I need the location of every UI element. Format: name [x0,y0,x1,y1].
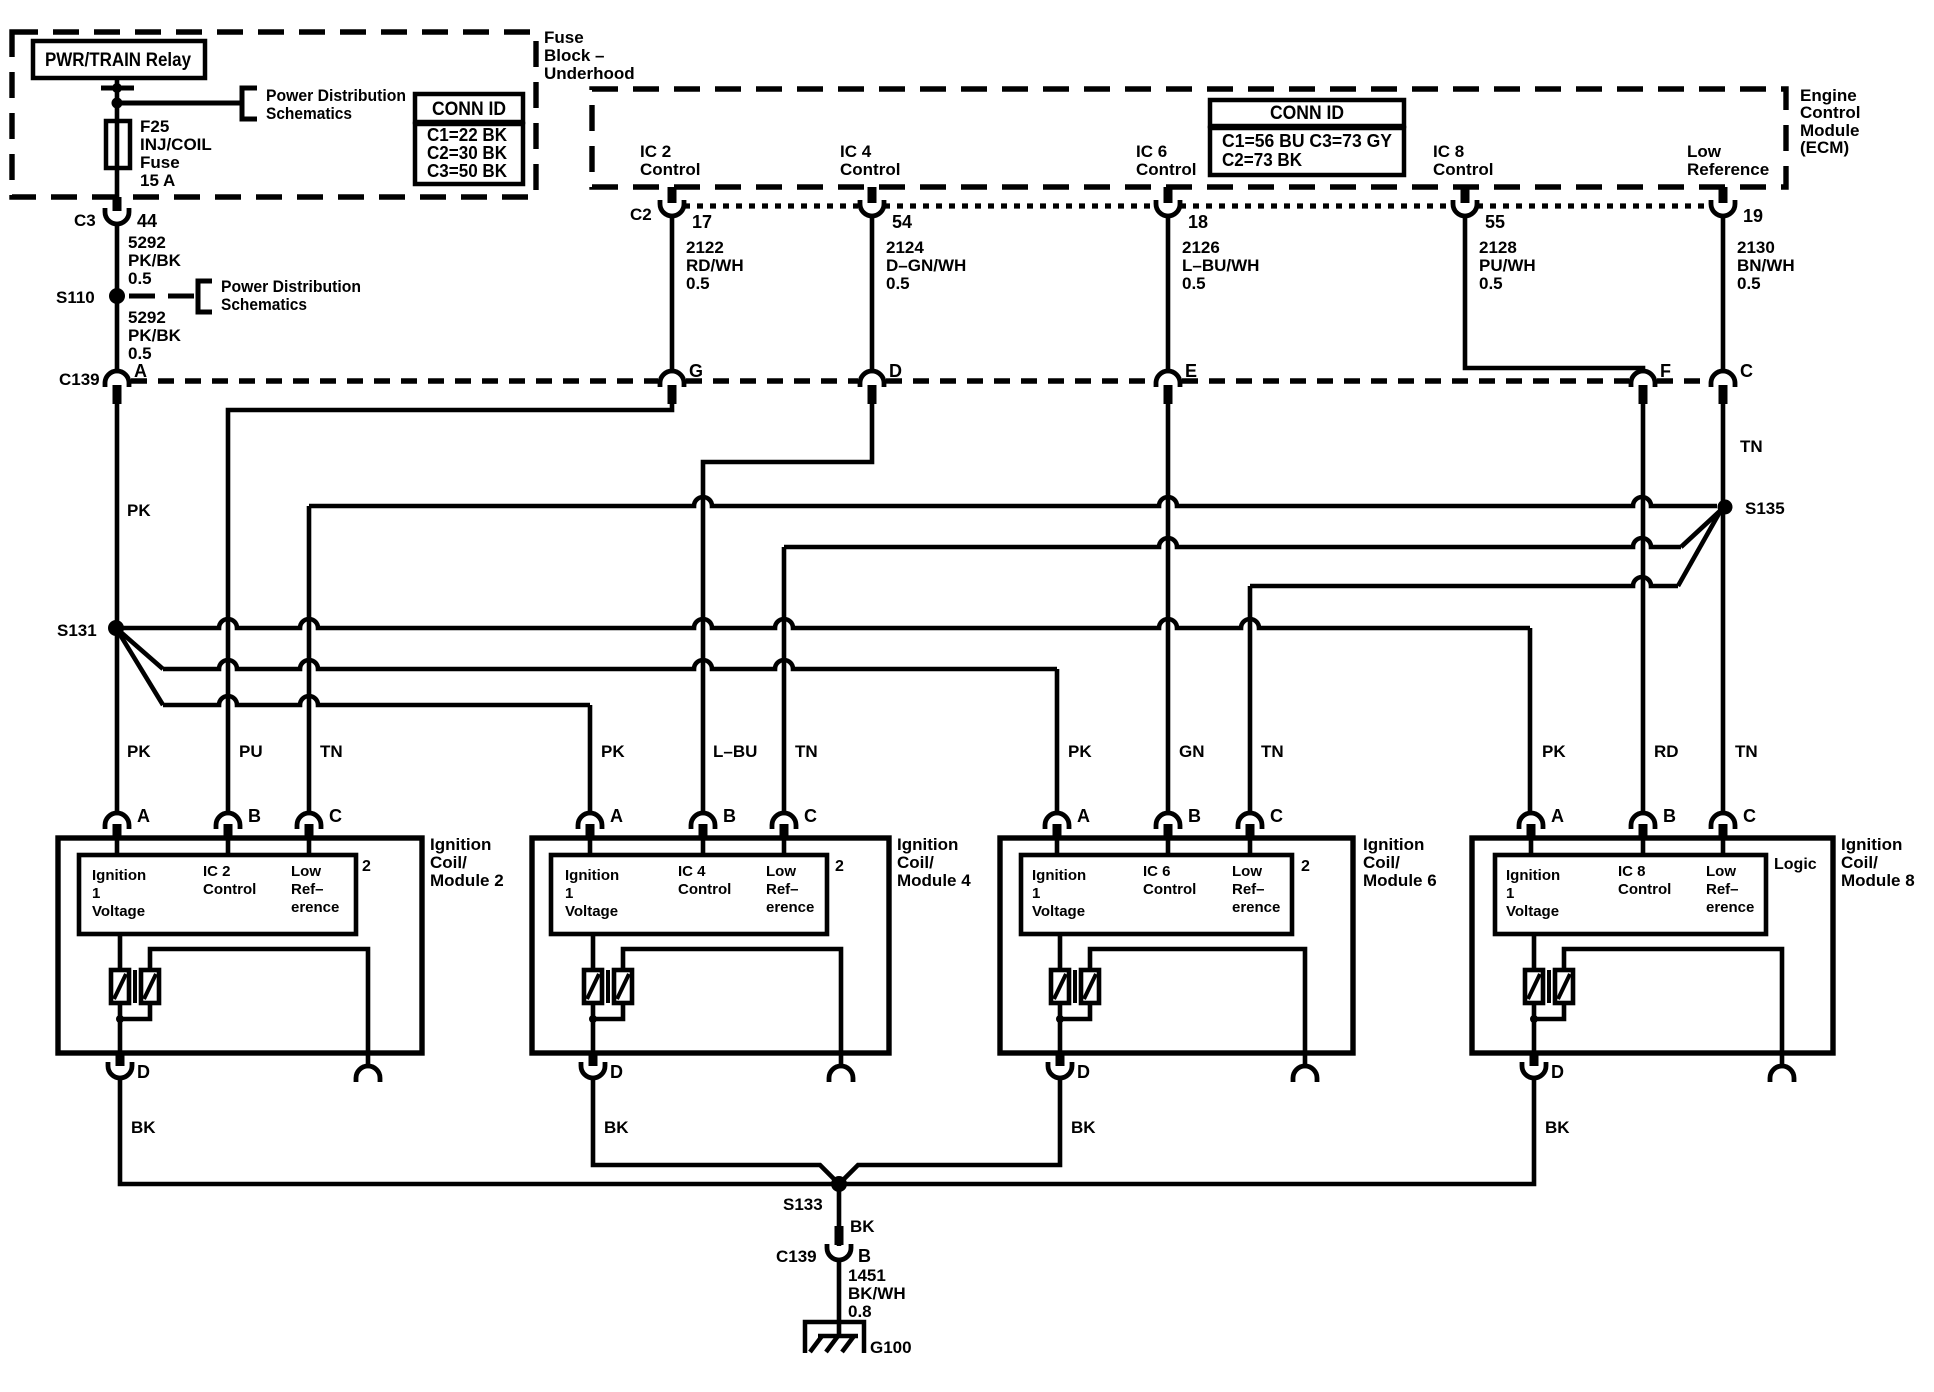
svg-text:Control: Control [678,881,731,898]
svg-text:TN: TN [795,742,818,761]
svg-text:D: D [889,361,902,381]
wire L-BU (D to module 4 pin B) [703,404,872,813]
svg-text:Ref–: Ref– [1232,881,1265,898]
svg-text:Power Distribution: Power Distribution [221,277,361,296]
module 6 pin B [1156,806,1201,838]
module 6 label IC 6 Control [1143,863,1196,898]
svg-text:2122: 2122 [686,238,724,257]
svg-text:Ref–: Ref– [291,881,324,898]
svg-text:Ref–: Ref– [766,881,799,898]
svg-text:5292: 5292 [128,308,166,327]
svg-text:Ignition: Ignition [1506,867,1560,884]
svg-text:INJ/COIL: INJ/COIL [140,135,212,154]
wire 5292 PK/BK lower [115,296,120,371]
splice S135 [1718,499,1785,518]
svg-text:C3=50 BK: C3=50 BK [427,161,507,181]
module 2 pin stubs into terminal box [117,836,309,855]
module 2 label 2 [362,858,371,875]
svg-text:S110: S110 [56,288,95,307]
svg-text:Low: Low [1232,863,1262,880]
svg-text:erence: erence [1706,899,1754,916]
svg-text:IC 2: IC 2 [203,863,231,880]
wire PK (C139-A to S131) [115,404,120,628]
module 6 coil core [1073,970,1077,1003]
svg-text:TN: TN [320,742,343,761]
module 2 terminal box [79,855,356,934]
ignition coil module 8 outer box [1472,838,1833,1053]
module 8 label Ignition 1 Voltage [1506,867,1560,920]
svg-text:Low: Low [1687,142,1722,161]
label BK (module 6) [1071,1118,1096,1137]
svg-text:S133: S133 [783,1195,823,1214]
svg-text:C: C [1743,806,1756,826]
svg-text:A: A [137,806,150,826]
svg-text:IC 8: IC 8 [1433,142,1464,161]
module 2 label Ignition 1 Voltage [92,867,146,920]
module 4 wire to pin D [591,1003,596,1051]
svg-text:TN: TN [1735,742,1758,761]
module 2 wire to pin D [118,1003,123,1051]
module 4 coil core [606,970,610,1003]
svg-text:G100: G100 [870,1338,912,1357]
label C2 [630,205,652,224]
svg-text:Ignition: Ignition [565,867,619,884]
svg-text:Coil/: Coil/ [1841,853,1878,872]
svg-text:D: D [610,1062,623,1082]
module 2 pin A [105,806,150,838]
module 8 label Low Ref-erence [1706,863,1754,916]
svg-text:C1=56 BU C3=73 GY: C1=56 BU C3=73 GY [1222,131,1392,151]
wire TN (C to S135) [1721,404,1726,506]
label 2122 RD/WH 0.5 [686,238,744,293]
module 8 label IC 8 Control [1618,863,1671,898]
wire branch to power distribution [117,101,240,106]
module 4 label 2 [835,858,844,875]
svg-text:B: B [723,806,736,826]
svg-text:Logic: Logic [1774,856,1817,873]
svg-text:2130: 2130 [1737,238,1775,257]
label 5292 PK/BK 0.5 (upper) [128,233,182,288]
svg-text:C2=30 BK: C2=30 BK [427,143,507,163]
module 4 label Ignition 1 Voltage [565,867,619,920]
module 4 pin B [691,806,736,838]
module 8 pin stubs into terminal box [1531,836,1723,855]
label 2130 BN/WH 0.5 [1737,238,1795,293]
label IC 6 Control [1136,142,1196,179]
svg-text:S135: S135 [1745,499,1785,518]
svg-text:Ignition: Ignition [897,835,958,854]
svg-text:Low: Low [291,863,321,880]
module 8 pin D [1522,1051,1564,1082]
label PK RD TN (module 8 wires) [1542,742,1758,761]
wire 2126 L-BU/WH (pin18 to E) [1166,216,1171,369]
svg-text:CONN ID: CONN ID [1270,103,1344,124]
module 6 label Ignition 1 Voltage [1032,867,1086,920]
wire TN bus (module2 C to S135) [309,497,1717,813]
label BK (module 4) [604,1118,629,1137]
svg-text:Control: Control [203,881,256,898]
connector C139 pin F [1631,361,1671,404]
svg-text:Module 4: Module 4 [897,871,971,890]
module 6 coil junction node [1056,1003,1090,1023]
connector C139 pin A [105,361,147,404]
svg-text:1: 1 [92,885,100,902]
module 2 label Low Ref-erence [291,863,339,916]
ignition coil module 4 outer box [532,838,889,1053]
wire 5292 PK/BK upper [115,224,120,296]
label Fuse Block - Underhood [544,28,635,83]
label PK (upper left) [127,501,151,520]
svg-text:BK: BK [1545,1118,1570,1137]
svg-text:CONN ID: CONN ID [432,99,506,120]
svg-text:PK: PK [127,742,151,761]
module 4 label IC 4 Control [678,863,731,898]
svg-text:D: D [137,1062,150,1082]
svg-text:C: C [1740,361,1753,381]
svg-text:Ignition: Ignition [92,867,146,884]
module 8 terminal box [1495,855,1766,934]
svg-text:BK: BK [850,1217,875,1236]
svg-text:Schematics: Schematics [221,295,307,314]
label PK GN TN (module 6 wires) [1068,742,1284,761]
fuse block - underhood dashed box [12,32,536,197]
svg-text:Voltage: Voltage [92,903,145,920]
svg-text:0.5: 0.5 [686,274,710,293]
svg-text:0.5: 0.5 [128,269,152,288]
svg-text:Control: Control [1143,881,1196,898]
ignition coil module 2 outer box [58,838,422,1053]
module 2 pin B [216,806,261,838]
svg-text:(ECM): (ECM) [1800,138,1849,157]
label Low Reference [1687,142,1769,179]
svg-text:BK/WH: BK/WH [848,1284,906,1303]
label IC 4 Control [840,142,900,179]
svg-text:PK: PK [1068,742,1092,761]
engine control module dashed box [592,89,1786,187]
module 4 pin C [772,806,817,838]
svg-text:2126: 2126 [1182,238,1220,257]
svg-text:1: 1 [565,885,573,902]
svg-text:15 A: 15 A [140,171,175,190]
module 6 pin A [1045,806,1090,838]
wire BK (module6 D to S133) [841,1078,1060,1182]
module 2 coil junction node [116,1003,150,1023]
svg-text:Module 6: Module 6 [1363,871,1437,890]
svg-text:E: E [1185,361,1197,381]
svg-text:2: 2 [1301,858,1310,875]
connector C139 pin B [776,1226,871,1266]
svg-text:Voltage: Voltage [1032,903,1085,920]
svg-text:0.5: 0.5 [1737,274,1761,293]
svg-text:C: C [804,806,817,826]
svg-text:Control: Control [1433,160,1493,179]
module 6 coil secondary winding [1081,970,1099,1003]
svg-text:Fuse: Fuse [544,28,584,47]
svg-text:D: D [1077,1062,1090,1082]
module 4 pin D [581,1051,623,1082]
connector C139 pin G [660,361,703,404]
connector C139 pin C [1711,361,1753,404]
svg-text:1451: 1451 [848,1266,886,1285]
svg-text:19: 19 [1743,206,1763,226]
ground G100 symbol [805,1322,864,1353]
svg-text:C2: C2 [630,205,652,224]
svg-text:erence: erence [766,899,814,916]
label PK PU TN (module 2 wires) [127,742,343,761]
svg-text:C: C [1270,806,1283,826]
svg-text:Control: Control [1136,160,1196,179]
module 6 secondary loop wire [1090,949,1305,1066]
module 4 pin A [578,806,623,838]
wire 1451 BK/WH [837,1260,842,1336]
svg-text:PU: PU [239,742,263,761]
svg-text:1: 1 [1506,885,1514,902]
svg-text:D–GN/WH: D–GN/WH [886,256,966,275]
svg-text:5292: 5292 [128,233,166,252]
wire PK (S131 to module2 A) [115,628,120,813]
module 4 coil secondary winding [614,970,632,1003]
splice S110 [56,288,125,307]
ECM pin 18 [1156,187,1208,232]
svg-text:IC 8: IC 8 [1618,863,1646,880]
svg-text:BK: BK [1071,1118,1096,1137]
svg-text:C139: C139 [59,370,100,389]
node relay branch [112,98,123,109]
wire PK bus L4 (S131 to module6 A) [116,628,1057,813]
svg-text:2128: 2128 [1479,238,1517,257]
svg-text:2: 2 [835,858,844,875]
svg-text:Coil/: Coil/ [1363,853,1400,872]
svg-text:Ignition: Ignition [1363,835,1424,854]
svg-text:0.5: 0.5 [886,274,910,293]
svg-text:A: A [1077,806,1090,826]
splice S131 [57,620,124,640]
svg-text:Coil/: Coil/ [430,853,467,872]
svg-text:Control: Control [1800,103,1860,122]
label C139 [59,370,100,389]
module 6 label Low Ref-erence [1232,863,1280,916]
svg-text:54: 54 [892,212,912,232]
svg-text:GN: GN [1179,742,1205,761]
label 5292 PK/BK 0.5 (lower) [128,308,182,363]
svg-text:Low: Low [766,863,796,880]
label TN (right upper) [1740,437,1763,456]
label BK (ground wire) [850,1217,875,1236]
svg-text:Ref–: Ref– [1706,881,1739,898]
svg-text:F: F [1660,361,1671,381]
svg-text:B: B [1188,806,1201,826]
svg-text:IC 4: IC 4 [840,142,872,161]
wire GN (E to module 6 pin B) [1166,404,1171,813]
svg-text:PK: PK [127,501,151,520]
ECM pin 55 [1453,187,1505,232]
ECM pin 17 [660,187,712,232]
svg-text:L–BU/WH: L–BU/WH [1182,256,1259,275]
svg-text:B: B [858,1246,871,1266]
svg-text:F25: F25 [140,117,169,136]
svg-text:A: A [610,806,623,826]
svg-text:Module 2: Module 2 [430,871,504,890]
module 4 coil junction node [589,1003,623,1023]
wire TN bus (module6 C to S135) [1250,510,1721,813]
svg-text:IC 6: IC 6 [1136,142,1167,161]
label BK (module 2) [131,1118,156,1137]
wire RD (F to module 8 pin B) [1641,404,1646,813]
module 4 secondary output socket [829,1066,853,1082]
svg-text:0.5: 0.5 [1479,274,1503,293]
module 6 coil primary winding [1051,934,1069,1003]
module 2 secondary output socket [356,1066,380,1082]
module 2 secondary loop wire [150,949,368,1066]
svg-text:Fuse: Fuse [140,153,180,172]
svg-text:C139: C139 [776,1247,817,1266]
svg-text:2: 2 [362,858,371,875]
svg-text:IC 2: IC 2 [640,142,671,161]
wire BK (module4 D to S133) [593,1078,837,1182]
module 2 pin D [108,1051,150,1082]
svg-text:S131: S131 [57,621,97,640]
module 2 coil primary winding [111,934,129,1003]
svg-text:erence: erence [1232,899,1280,916]
wire TN bus (module4 C to S135) [784,510,1721,813]
module 8 secondary output socket [1770,1066,1794,1082]
module 8 coil primary winding [1525,934,1543,1003]
label IC 2 Control [640,142,700,179]
wire PU (G to module 2 pin B) [228,404,672,813]
module 6 terminal box [1021,855,1292,934]
svg-text:1: 1 [1032,885,1040,902]
svg-text:Voltage: Voltage [565,903,618,920]
relay pin T-bar [101,83,134,93]
svg-text:Underhood: Underhood [544,64,635,83]
svg-text:55: 55 [1485,212,1505,232]
module 6 pin D [1048,1051,1090,1082]
module 4 secondary loop wire [623,949,841,1066]
module 8 pin C [1711,806,1756,838]
label Engine Control Module (ECM) [1800,86,1860,157]
svg-text:erence: erence [291,899,339,916]
svg-text:IC 4: IC 4 [678,863,706,880]
ECM pin 54 [860,187,912,232]
connector C2 dotted line [684,203,1711,208]
svg-text:Block –: Block – [544,46,604,65]
svg-text:B: B [248,806,261,826]
connector C139 pin E [1156,361,1197,404]
svg-text:Control: Control [840,160,900,179]
svg-text:PK: PK [1542,742,1566,761]
svg-text:TN: TN [1740,437,1763,456]
wire relay output [115,78,120,121]
svg-text:Coil/: Coil/ [897,853,934,872]
wire BK (module2 D to S133) [120,1078,836,1184]
label Ignition Coil/ Module 6 [1363,835,1437,890]
svg-text:PK/BK: PK/BK [128,251,182,270]
module 4 terminal box [551,855,827,934]
svg-text:A: A [134,361,147,381]
svg-text:BK: BK [131,1118,156,1137]
svg-text:2124: 2124 [886,238,924,257]
svg-text:A: A [1551,806,1564,826]
svg-text:Ignition: Ignition [1841,835,1902,854]
svg-text:Power Distribution: Power Distribution [266,86,406,105]
label Ignition Coil/ Module 4 [897,835,971,890]
wire PK bus L5 (S131 to module4 A) [116,628,590,813]
svg-text:IC 6: IC 6 [1143,863,1171,880]
module 6 label 2 [1301,858,1310,875]
svg-text:D: D [1551,1062,1564,1082]
table CONN ID (fuse block) [415,94,523,184]
module 2 coil core [133,970,137,1003]
svg-text:PWR/TRAIN Relay: PWR/TRAIN Relay [45,50,191,71]
wire BK (S133 to C139-B) [837,1184,842,1246]
wire 2122 RD/WH (pin17 to G) [670,216,675,369]
svg-text:PK: PK [601,742,625,761]
svg-text:Schematics: Schematics [266,104,352,123]
bracket power distribution (top) [242,88,257,119]
wire 2130 BN/WH (pin19 to C) [1721,216,1726,369]
module 4 label Low Ref-erence [766,863,814,916]
connector C139 pin D [860,361,902,404]
ignition coil module 6 outer box [1000,838,1353,1053]
dashed link S110 to power distribution [129,294,196,299]
module 8 pin A [1519,806,1564,838]
label 1451 BK/WH 0.8 [848,1266,906,1321]
label G100 [870,1338,912,1357]
module 8 coil core [1547,970,1551,1003]
svg-text:TN: TN [1261,742,1284,761]
module 6 secondary output socket [1293,1066,1317,1082]
svg-text:PK/BK: PK/BK [128,326,182,345]
label F25 INJ/COIL Fuse 15 A [140,117,212,190]
svg-text:0.8: 0.8 [848,1302,872,1321]
svg-text:C2=73 BK: C2=73 BK [1222,150,1302,170]
svg-text:Low: Low [1706,863,1736,880]
label 2128 PU/WH 0.5 [1479,238,1536,293]
svg-text:RD: RD [1654,742,1679,761]
svg-text:18: 18 [1188,212,1208,232]
relay PWR/TRAIN box [33,41,205,78]
module 4 coil primary winding [584,934,602,1003]
module 8 secondary loop wire [1564,949,1782,1066]
label IC 8 Control [1433,142,1493,179]
module 8 label Logic [1774,856,1817,873]
wire 2128 PU/WH (pin55 jog to F) [1465,216,1643,369]
svg-text:PU/WH: PU/WH [1479,256,1536,275]
svg-text:Module 8: Module 8 [1841,871,1915,890]
wire BK (module8 D to S133) [842,1078,1534,1184]
svg-text:Ignition: Ignition [1032,867,1086,884]
svg-text:17: 17 [692,212,712,232]
svg-text:RD/WH: RD/WH [686,256,744,275]
svg-text:B: B [1663,806,1676,826]
module 8 coil junction node [1530,1003,1564,1023]
module 8 wire to pin D [1532,1003,1537,1051]
bracket power distribution (S110) [198,281,212,312]
label Power Distribution Schematics (top) [266,86,406,123]
svg-text:BN/WH: BN/WH [1737,256,1795,275]
svg-text:C3: C3 [74,211,96,230]
svg-text:Control: Control [640,160,700,179]
svg-text:G: G [689,361,703,381]
svg-text:Voltage: Voltage [1506,903,1559,920]
module 6 wire to pin D [1058,1003,1063,1051]
module 6 pin C [1238,806,1283,838]
label BK (module 8) [1545,1118,1570,1137]
ECM pin 19 [1711,187,1763,226]
module 6 pin stubs into terminal box [1057,836,1250,855]
module 2 coil secondary winding [141,970,159,1003]
splice S133 [783,1176,847,1214]
